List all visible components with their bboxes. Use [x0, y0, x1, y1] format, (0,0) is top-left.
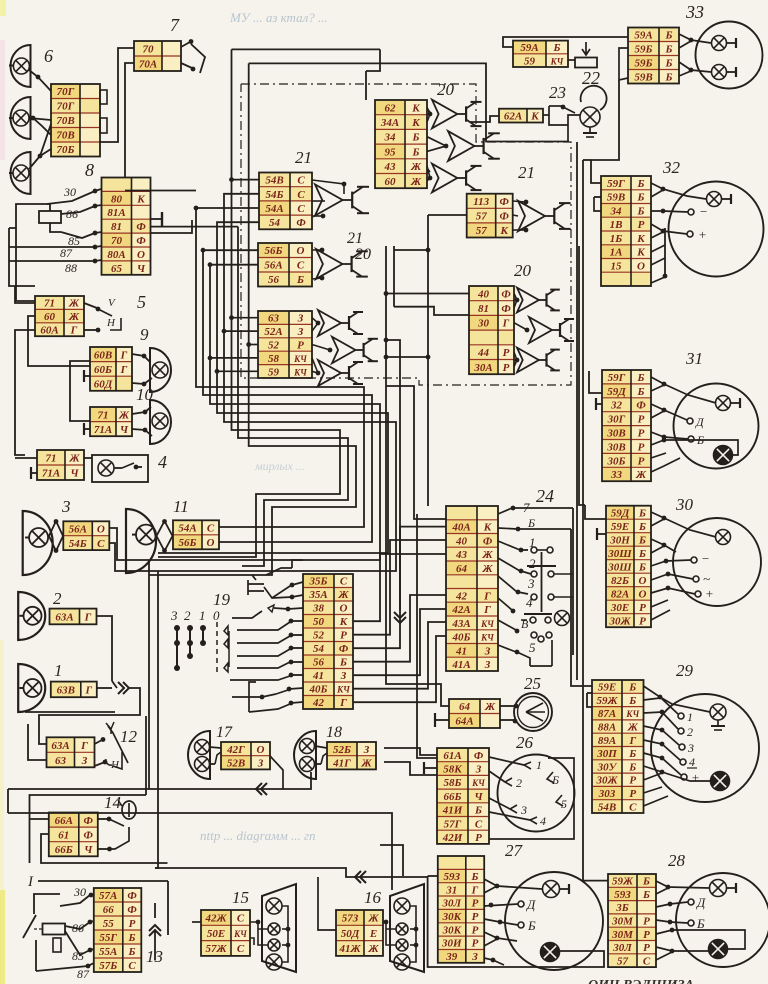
ground 4	[31, 467, 37, 479]
label 20a	[437, 80, 455, 99]
svg-text:59В: 59В	[607, 192, 625, 204]
svg-text:Ж: Ж	[481, 563, 493, 575]
svg-text:З: З	[363, 744, 370, 756]
pin 4 of 24	[498, 595, 533, 613]
wire net 54А (21a r3 - block11 r1)	[194, 206, 364, 527]
svg-text:Д: Д	[695, 895, 706, 910]
wire 32 left feed2b	[594, 197, 601, 211]
label 14	[104, 793, 122, 812]
label 4	[158, 452, 167, 472]
wire 22 r2	[567, 47, 569, 60]
svg-text:63: 63	[55, 755, 67, 767]
pin 30 of 13	[60, 885, 94, 906]
svg-text:41Г: 41Г	[332, 758, 351, 770]
svg-text:3Б: 3Б	[615, 902, 629, 914]
wire 25 r2	[500, 719, 517, 724]
lamp 29 dark	[711, 772, 730, 791]
lamp 27 top	[543, 881, 570, 898]
svg-text:7: 7	[170, 15, 180, 35]
svg-text:30З: 30З	[598, 788, 616, 800]
svg-text:3: 3	[61, 497, 71, 516]
arrow junction 1-2	[112, 681, 129, 694]
svg-text:59Г: 59Г	[608, 372, 626, 384]
svg-text:60А: 60А	[40, 325, 58, 337]
wire mid h y250	[394, 249, 428, 251]
svg-text:Ж: Ж	[410, 161, 422, 173]
svg-text:Е: Е	[369, 928, 377, 940]
label 21a	[295, 148, 312, 167]
connector block 32	[601, 176, 651, 286]
svg-text:Б: Б	[471, 871, 479, 883]
wire 29 r6	[644, 753, 682, 775]
wire block7.1 left	[99, 48, 134, 142]
svg-text:4: 4	[540, 814, 546, 828]
svg-text:Ф: Ф	[136, 221, 146, 233]
wire 17 links	[210, 747, 222, 764]
svg-text:34: 34	[610, 205, 623, 217]
wire block8 row 81 right	[151, 220, 193, 233]
lamp 9 reflector	[150, 348, 171, 392]
label 28	[668, 851, 686, 870]
wire 29 r8	[644, 773, 663, 780]
wire 27 box	[428, 876, 604, 967]
svg-text:30: 30	[675, 495, 694, 514]
svg-text:nttр ... diаgrамм ... гп: nttр ... diаgrамм ... гп	[200, 828, 316, 843]
wire 19r9 to 24	[353, 622, 446, 689]
wire net 54В (21a r1 stub)	[229, 177, 259, 182]
label 3	[61, 497, 71, 516]
svg-text:+: +	[698, 227, 707, 242]
wire top run 1	[232, 48, 381, 50]
svg-text:1: 1	[54, 661, 63, 680]
svg-text:К: К	[339, 616, 348, 628]
wire junction right	[39, 688, 140, 744]
switch 24 contacts r3	[531, 594, 573, 600]
svg-text:О: О	[297, 245, 305, 257]
wire lamp6.2b to block6	[33, 118, 51, 135]
svg-text:Г: Г	[80, 740, 88, 752]
lamp 6.3 bulb	[9, 165, 29, 181]
cluster 15 lamp2	[268, 923, 280, 935]
pin 7 of 24	[498, 500, 573, 515]
svg-text:88: 88	[65, 261, 77, 275]
wire 31 r1	[651, 377, 716, 403]
wire 10 r2	[132, 428, 152, 436]
connector block 24	[446, 506, 498, 671]
svg-text:26: 26	[516, 733, 534, 752]
svg-text:60Б: 60Б	[94, 364, 112, 376]
svg-text:З: З	[484, 645, 491, 657]
svg-text:42А: 42А	[451, 604, 470, 616]
svg-text:52: 52	[313, 630, 325, 642]
svg-text:30Л: 30Л	[442, 898, 462, 910]
housing 28 circle	[676, 873, 768, 967]
cluster 16 lamp2	[396, 923, 408, 935]
pin 85 of 13	[65, 931, 94, 963]
svg-text:30М: 30М	[611, 916, 634, 928]
wire 29 r4	[644, 726, 680, 745]
wire 30 r8	[651, 600, 668, 607]
svg-text:42: 42	[312, 697, 325, 709]
svg-text:43: 43	[384, 161, 397, 173]
svg-text:Ф: Ф	[127, 890, 137, 902]
svg-text:9: 9	[140, 325, 149, 344]
svg-text:57А: 57А	[99, 890, 117, 902]
svg-text:Р: Р	[475, 832, 482, 844]
wire 1 to junction	[96, 687, 112, 689]
wire 32 r2	[651, 190, 663, 197]
svg-text:С: С	[207, 523, 215, 535]
svg-text:52А: 52А	[264, 326, 282, 338]
svg-text:С: С	[297, 175, 305, 187]
svg-text:21: 21	[518, 163, 535, 182]
svg-text:57Ж: 57Ж	[205, 943, 227, 955]
svg-text:Г: Г	[84, 684, 92, 696]
wire 14 bottom rail	[41, 834, 168, 863]
switch 19 top wire	[266, 560, 303, 599]
wire 25 r1	[500, 704, 518, 709]
svg-text:56А: 56А	[69, 524, 87, 536]
lamp 10 bulb	[152, 413, 168, 429]
wire left tall v1	[148, 560, 150, 789]
connector block 16	[336, 910, 383, 956]
svg-text:Б: Б	[638, 534, 646, 546]
svg-text:21: 21	[295, 148, 312, 167]
svg-text:43А: 43А	[451, 618, 470, 630]
svg-text:62: 62	[385, 102, 397, 114]
svg-text:Р: Р	[638, 219, 645, 231]
svg-text:Ж: Ж	[337, 589, 349, 601]
connector block 10	[90, 407, 132, 436]
svg-text:30Г: 30Г	[607, 414, 626, 426]
wire 27 lamp feed	[484, 879, 542, 889]
svg-text:29: 29	[676, 661, 694, 680]
pin 88 of 8	[9, 259, 102, 275]
switch 24 contacts r4	[530, 617, 551, 623]
svg-text:Г: Г	[70, 325, 78, 337]
lamp 18.2	[300, 757, 315, 772]
svg-text:59Ж: 59Ж	[596, 695, 618, 707]
svg-text:З: З	[297, 326, 304, 338]
svg-text:Б: Б	[637, 372, 645, 384]
wire 10 r1	[132, 407, 151, 414]
switch 19 arm6	[237, 646, 303, 656]
ground 26	[424, 762, 437, 774]
svg-text:34А: 34А	[380, 117, 399, 129]
svg-text:З: З	[340, 670, 347, 682]
svg-text:С: С	[97, 538, 105, 550]
svg-text:70Б: 70Б	[57, 144, 75, 156]
svg-text:54В: 54В	[598, 801, 616, 813]
svg-text:25: 25	[524, 674, 541, 693]
terminal Д of 27	[518, 897, 536, 912]
svg-text:63А: 63А	[55, 611, 73, 623]
svg-text:30К: 30К	[442, 924, 462, 936]
svg-text:Ч: Ч	[120, 424, 129, 436]
svg-text:В: В	[521, 617, 529, 631]
terminal Б of 31	[688, 433, 704, 447]
svg-text:87: 87	[60, 246, 73, 260]
svg-text:33: 33	[685, 2, 704, 22]
wire left tall v2	[155, 571, 158, 868]
svg-text:С: С	[237, 913, 245, 925]
wire 22 top	[503, 37, 628, 47]
svg-text:Ф: Ф	[500, 211, 510, 223]
wire horn23 right	[568, 115, 580, 125]
wire 30 r1	[651, 512, 716, 537]
svg-text:40А: 40А	[451, 522, 470, 534]
terminal plus of 29	[681, 770, 700, 785]
svg-text:57: 57	[476, 211, 488, 223]
svg-text:59Е: 59Е	[611, 521, 629, 533]
wire 32 r8	[651, 277, 665, 283]
svg-text:Р: Р	[643, 916, 650, 928]
pin 87 of 8	[9, 245, 102, 260]
svg-text:Р: Р	[638, 455, 645, 467]
svg-text:19: 19	[213, 590, 231, 609]
svg-text:З: З	[297, 313, 304, 325]
svg-text:30: 30	[477, 318, 490, 330]
cluster 15 lamp1	[266, 898, 282, 914]
svg-text:2: 2	[184, 608, 191, 623]
lamp 17.1	[195, 740, 210, 755]
svg-text:КЧ: КЧ	[550, 56, 564, 66]
terminal 2 of 29	[678, 725, 693, 739]
lamp 30	[716, 530, 731, 545]
svg-text:58К: 58К	[443, 764, 462, 776]
socket 26 pin4	[489, 812, 546, 828]
svg-text:4: 4	[158, 452, 167, 472]
svg-text:Ф: Ф	[501, 303, 511, 315]
svg-text:Р: Р	[503, 347, 510, 359]
svg-text:23: 23	[549, 83, 566, 102]
wire 13 frame	[34, 894, 61, 971]
svg-text:59Г: 59Г	[607, 178, 625, 190]
transistor 21b	[312, 248, 368, 281]
svg-text:42Ж: 42Ж	[204, 913, 227, 925]
connector block 25	[449, 699, 500, 728]
svg-text:55Г: 55Г	[99, 932, 117, 944]
wire 19 feed b	[149, 575, 256, 580]
svg-text:Б: Б	[638, 507, 646, 519]
svg-text:С: С	[629, 801, 637, 813]
connector block 28	[608, 874, 656, 967]
caption text	[588, 978, 694, 984]
svg-text:Ф: Ф	[501, 288, 511, 300]
svg-text:Д: Д	[525, 897, 536, 912]
switch 23	[543, 105, 575, 125]
transistor pack 20a	[427, 100, 500, 193]
svg-text:З: З	[81, 755, 88, 767]
wire 19r5 to 24	[353, 540, 446, 635]
svg-text:21: 21	[347, 230, 363, 247]
svg-text:71А: 71А	[42, 468, 60, 480]
wire 29 feed2	[587, 693, 592, 707]
svg-text:30Ш: 30Ш	[607, 548, 632, 560]
svg-text:0: 0	[213, 608, 220, 623]
wire 1 low loop	[25, 711, 115, 713]
wire 31 r5	[651, 432, 688, 439]
wire 12 left	[28, 724, 47, 760]
label 23	[549, 83, 566, 102]
svg-text:63: 63	[268, 313, 280, 325]
svg-text:31: 31	[445, 884, 457, 896]
svg-text:59Д: 59Д	[607, 386, 626, 398]
svg-text:КЧ: КЧ	[625, 709, 639, 719]
svg-text:16: 16	[364, 888, 382, 907]
wire 9-10 link	[70, 361, 90, 421]
pin 87 of 13	[36, 963, 94, 981]
label 19	[213, 590, 231, 609]
connector block 30	[606, 506, 651, 628]
svg-text:50: 50	[313, 616, 325, 628]
lamp unit 4 box	[92, 455, 148, 482]
svg-text:О: О	[340, 603, 348, 615]
connector block 27	[438, 856, 484, 963]
svg-text:63В: 63В	[57, 684, 75, 696]
svg-text:Н: Н	[110, 759, 120, 771]
svg-text:54Б: 54Б	[266, 189, 284, 201]
wire mid v x400 arrow	[386, 340, 406, 623]
wire 33 r3	[679, 62, 711, 72]
svg-text:40Б: 40Б	[452, 632, 471, 644]
transistor 21c	[513, 200, 571, 233]
pin 1 of 24	[498, 535, 536, 552]
svg-text:Ж: Ж	[367, 913, 379, 925]
svg-text:59В: 59В	[634, 72, 652, 84]
svg-text:Б: Б	[527, 516, 535, 530]
pin 3 of 24	[498, 576, 535, 594]
svg-text:Р: Р	[638, 414, 645, 426]
svg-text:5: 5	[137, 292, 146, 312]
svg-text:32: 32	[662, 158, 681, 177]
svg-text:Ф: Ф	[296, 217, 306, 229]
wire mid h y357	[386, 356, 428, 358]
svg-text:30П: 30П	[596, 748, 617, 760]
wire 33 r1	[679, 34, 711, 43]
wire lamp6.2 to block6	[29, 116, 51, 121]
cluster 15 housing	[262, 884, 296, 972]
svg-text:КЧ: КЧ	[480, 619, 494, 629]
svg-text:Ж: Ж	[68, 453, 80, 465]
svg-text:Ч: Ч	[70, 468, 79, 480]
svg-text:95: 95	[385, 146, 397, 158]
svg-text:82Б: 82Б	[611, 575, 629, 587]
svg-text:59: 59	[268, 366, 280, 378]
node I label	[27, 874, 34, 890]
ground 9	[84, 370, 90, 382]
svg-text:Д: Д	[695, 415, 705, 429]
svg-text:З: З	[475, 764, 482, 776]
wire 31 r7b	[651, 453, 666, 458]
wire 29 r1	[644, 686, 679, 714]
svg-text:Б: Б	[339, 657, 347, 669]
svg-text:54: 54	[313, 643, 325, 655]
block 6 tab lower	[100, 118, 107, 133]
svg-text:Б: Б	[642, 889, 650, 901]
svg-text:КЧ: КЧ	[471, 778, 485, 788]
label 33	[685, 2, 704, 22]
svg-text:30К: 30К	[442, 911, 462, 923]
svg-text:1: 1	[687, 710, 693, 724]
terminal Д of 31	[687, 415, 705, 429]
svg-text:Б: Б	[638, 548, 646, 560]
svg-text:О: О	[639, 588, 647, 600]
svg-text:Ж: Ж	[360, 758, 372, 770]
svg-text:42И: 42И	[442, 832, 463, 844]
wire 27 r3	[484, 884, 499, 893]
socket 26 pin3	[489, 798, 527, 817]
svg-text:11: 11	[173, 497, 189, 516]
svg-text:80: 80	[111, 193, 123, 205]
wire 19 feed a	[158, 556, 230, 558]
connector block 17	[221, 742, 270, 770]
watermark text lower	[200, 828, 316, 843]
svg-text:20: 20	[437, 80, 455, 99]
svg-text:Б: Б	[665, 72, 673, 84]
wire 28 r6	[656, 947, 709, 953]
wire rail y813	[8, 789, 392, 845]
svg-text:59А: 59А	[520, 42, 538, 54]
svg-text:30В: 30В	[606, 428, 625, 440]
lighter 14 icon	[118, 800, 136, 819]
switch 13	[23, 915, 42, 938]
lamp 4 bulb	[98, 460, 114, 476]
housing 27 circle	[505, 872, 603, 970]
socket 26 pinБ	[547, 772, 559, 787]
svg-text:70А: 70А	[139, 59, 157, 71]
svg-text:18: 18	[326, 724, 342, 741]
wire block7.2 left	[125, 63, 134, 191]
cluster 16 wiring	[383, 906, 418, 962]
wire bus v6 (from top run1)	[230, 49, 340, 557]
svg-text:60: 60	[385, 176, 397, 188]
svg-text:Р: Р	[472, 911, 479, 923]
lamp 18.1	[300, 739, 315, 754]
svg-text:Н: Н	[106, 317, 116, 329]
wire net 56А (21b r2 - block3 r1)	[109, 262, 380, 560]
svg-text:66: 66	[103, 904, 115, 916]
switch 24 contacts r1	[531, 547, 553, 553]
svg-text:Р: Р	[472, 938, 479, 950]
label 24	[536, 486, 554, 506]
connector block 3	[63, 521, 109, 550]
svg-text:3: 3	[527, 576, 535, 591]
label 26	[516, 733, 534, 752]
svg-text:71А: 71А	[94, 424, 112, 436]
wire 29 r2b to lamp	[660, 697, 710, 712]
svg-text:3: 3	[687, 741, 694, 755]
wire 29 r2	[644, 698, 661, 700]
svg-text:42: 42	[455, 590, 468, 602]
label 18	[326, 724, 342, 741]
wire top run 2	[249, 63, 569, 141]
svg-text:Г: Г	[483, 604, 491, 616]
switch 19 col1	[200, 625, 206, 646]
terminal minus of 30	[691, 551, 710, 566]
svg-text:27: 27	[505, 841, 524, 860]
wire 33 left bracket	[619, 48, 628, 80]
svg-text:Г: Г	[339, 697, 347, 709]
lamp 28 top	[710, 880, 737, 897]
wire lamp6.1 to block6	[29, 70, 51, 91]
label 11	[173, 497, 189, 516]
wire mid v x394	[393, 246, 395, 307]
svg-text:Б: Б	[128, 946, 136, 958]
svg-text:Г: Г	[120, 364, 128, 376]
svg-text:Р: Р	[472, 898, 479, 910]
watermark text middle	[254, 459, 305, 473]
